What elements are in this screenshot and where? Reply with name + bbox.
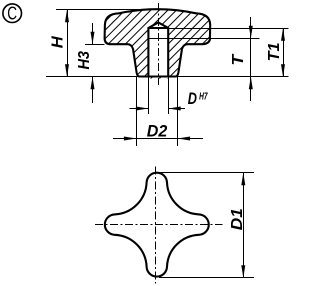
svg-text:H3: H3 [76, 51, 93, 70]
svg-text:T1: T1 [266, 42, 283, 61]
svg-text:D1: D1 [229, 208, 246, 230]
svg-text:C: C [7, 3, 17, 23]
svg-text:H: H [49, 36, 66, 48]
svg-text:H7: H7 [199, 90, 208, 102]
svg-text:D2: D2 [147, 121, 168, 140]
svg-text:T: T [230, 53, 247, 65]
svg-text:D: D [188, 90, 197, 108]
